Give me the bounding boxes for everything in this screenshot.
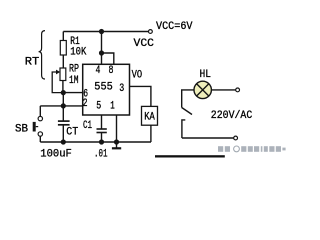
svg-text:100uF: 100uF	[40, 148, 72, 159]
wire top VCC rail	[63, 31, 148, 33]
brace RT	[39, 31, 45, 79]
svg-text:VCC=6V: VCC=6V	[156, 21, 193, 33]
node junction pin1 bottom	[114, 139, 119, 144]
svg-text:555: 555	[94, 82, 113, 94]
node junction pin4/pin8 branch	[99, 50, 104, 55]
wire pin 6	[63, 92, 82, 94]
wire pin 1	[116, 115, 118, 142]
svg-text:C1: C1	[83, 120, 92, 132]
watermark	[218, 146, 286, 152]
switch KA contact blade	[182, 108, 192, 115]
capacitor CT	[58, 120, 70, 122]
node junction top rail	[99, 29, 104, 34]
svg-text:1M: 1M	[69, 75, 79, 87]
terminal 220V bottom circle	[234, 136, 238, 140]
op-amp U1 555 timer box	[83, 64, 130, 115]
wire pin 3 output	[130, 86, 151, 106]
svg-text:KA: KA	[144, 112, 155, 124]
wiper arrow of RP	[52, 72, 63, 93]
switch lower contact	[182, 120, 185, 138]
potentiometer RP	[60, 68, 66, 81]
svg-text:HL: HL	[200, 69, 212, 81]
node junction pin 6	[61, 90, 66, 95]
svg-text:220V/AC: 220V/AC	[211, 110, 253, 122]
wire bottom 220V	[182, 137, 234, 139]
wire CT vertical	[62, 93, 64, 121]
terminal 220V top circle	[236, 88, 240, 92]
svg-text:SB: SB	[15, 123, 28, 135]
svg-text:3: 3	[119, 83, 124, 95]
wire pin 2	[40, 105, 82, 107]
svg-text:RT: RT	[25, 57, 40, 69]
svg-text:8: 8	[109, 65, 114, 77]
svg-text:10K: 10K	[70, 46, 86, 58]
black bar bottom	[155, 155, 225, 157]
lamp HL	[194, 81, 211, 98]
svg-text:5: 5	[96, 101, 101, 113]
resistor R1	[62, 32, 64, 41]
svg-text:CT: CT	[66, 127, 78, 139]
capacitor C1	[101, 115, 103, 129]
svg-text:VO: VO	[132, 69, 143, 81]
wire KA to bottom rail	[150, 125, 152, 142]
wire VCC vertical to pin 4	[101, 32, 103, 65]
ground	[116, 142, 118, 148]
wire bottom rail	[40, 141, 151, 143]
svg-text:4: 4	[96, 65, 101, 77]
wire lamp left to switch	[182, 90, 194, 108]
svg-text:.01: .01	[94, 148, 108, 159]
svg-text:RP: RP	[69, 63, 79, 75]
terminal VCC open circle	[149, 30, 153, 34]
wire lamp right	[211, 89, 235, 91]
node junction CT bottom	[61, 139, 66, 144]
push button SB	[39, 106, 41, 117]
node junction pin 2	[61, 103, 66, 108]
svg-text:2: 2	[83, 98, 88, 110]
svg-text:1: 1	[110, 101, 115, 113]
node junction C1 bottom	[99, 139, 104, 144]
relay KA	[142, 106, 158, 125]
wire branch to pin 8	[102, 53, 114, 64]
svg-text:VCC: VCC	[134, 38, 155, 50]
